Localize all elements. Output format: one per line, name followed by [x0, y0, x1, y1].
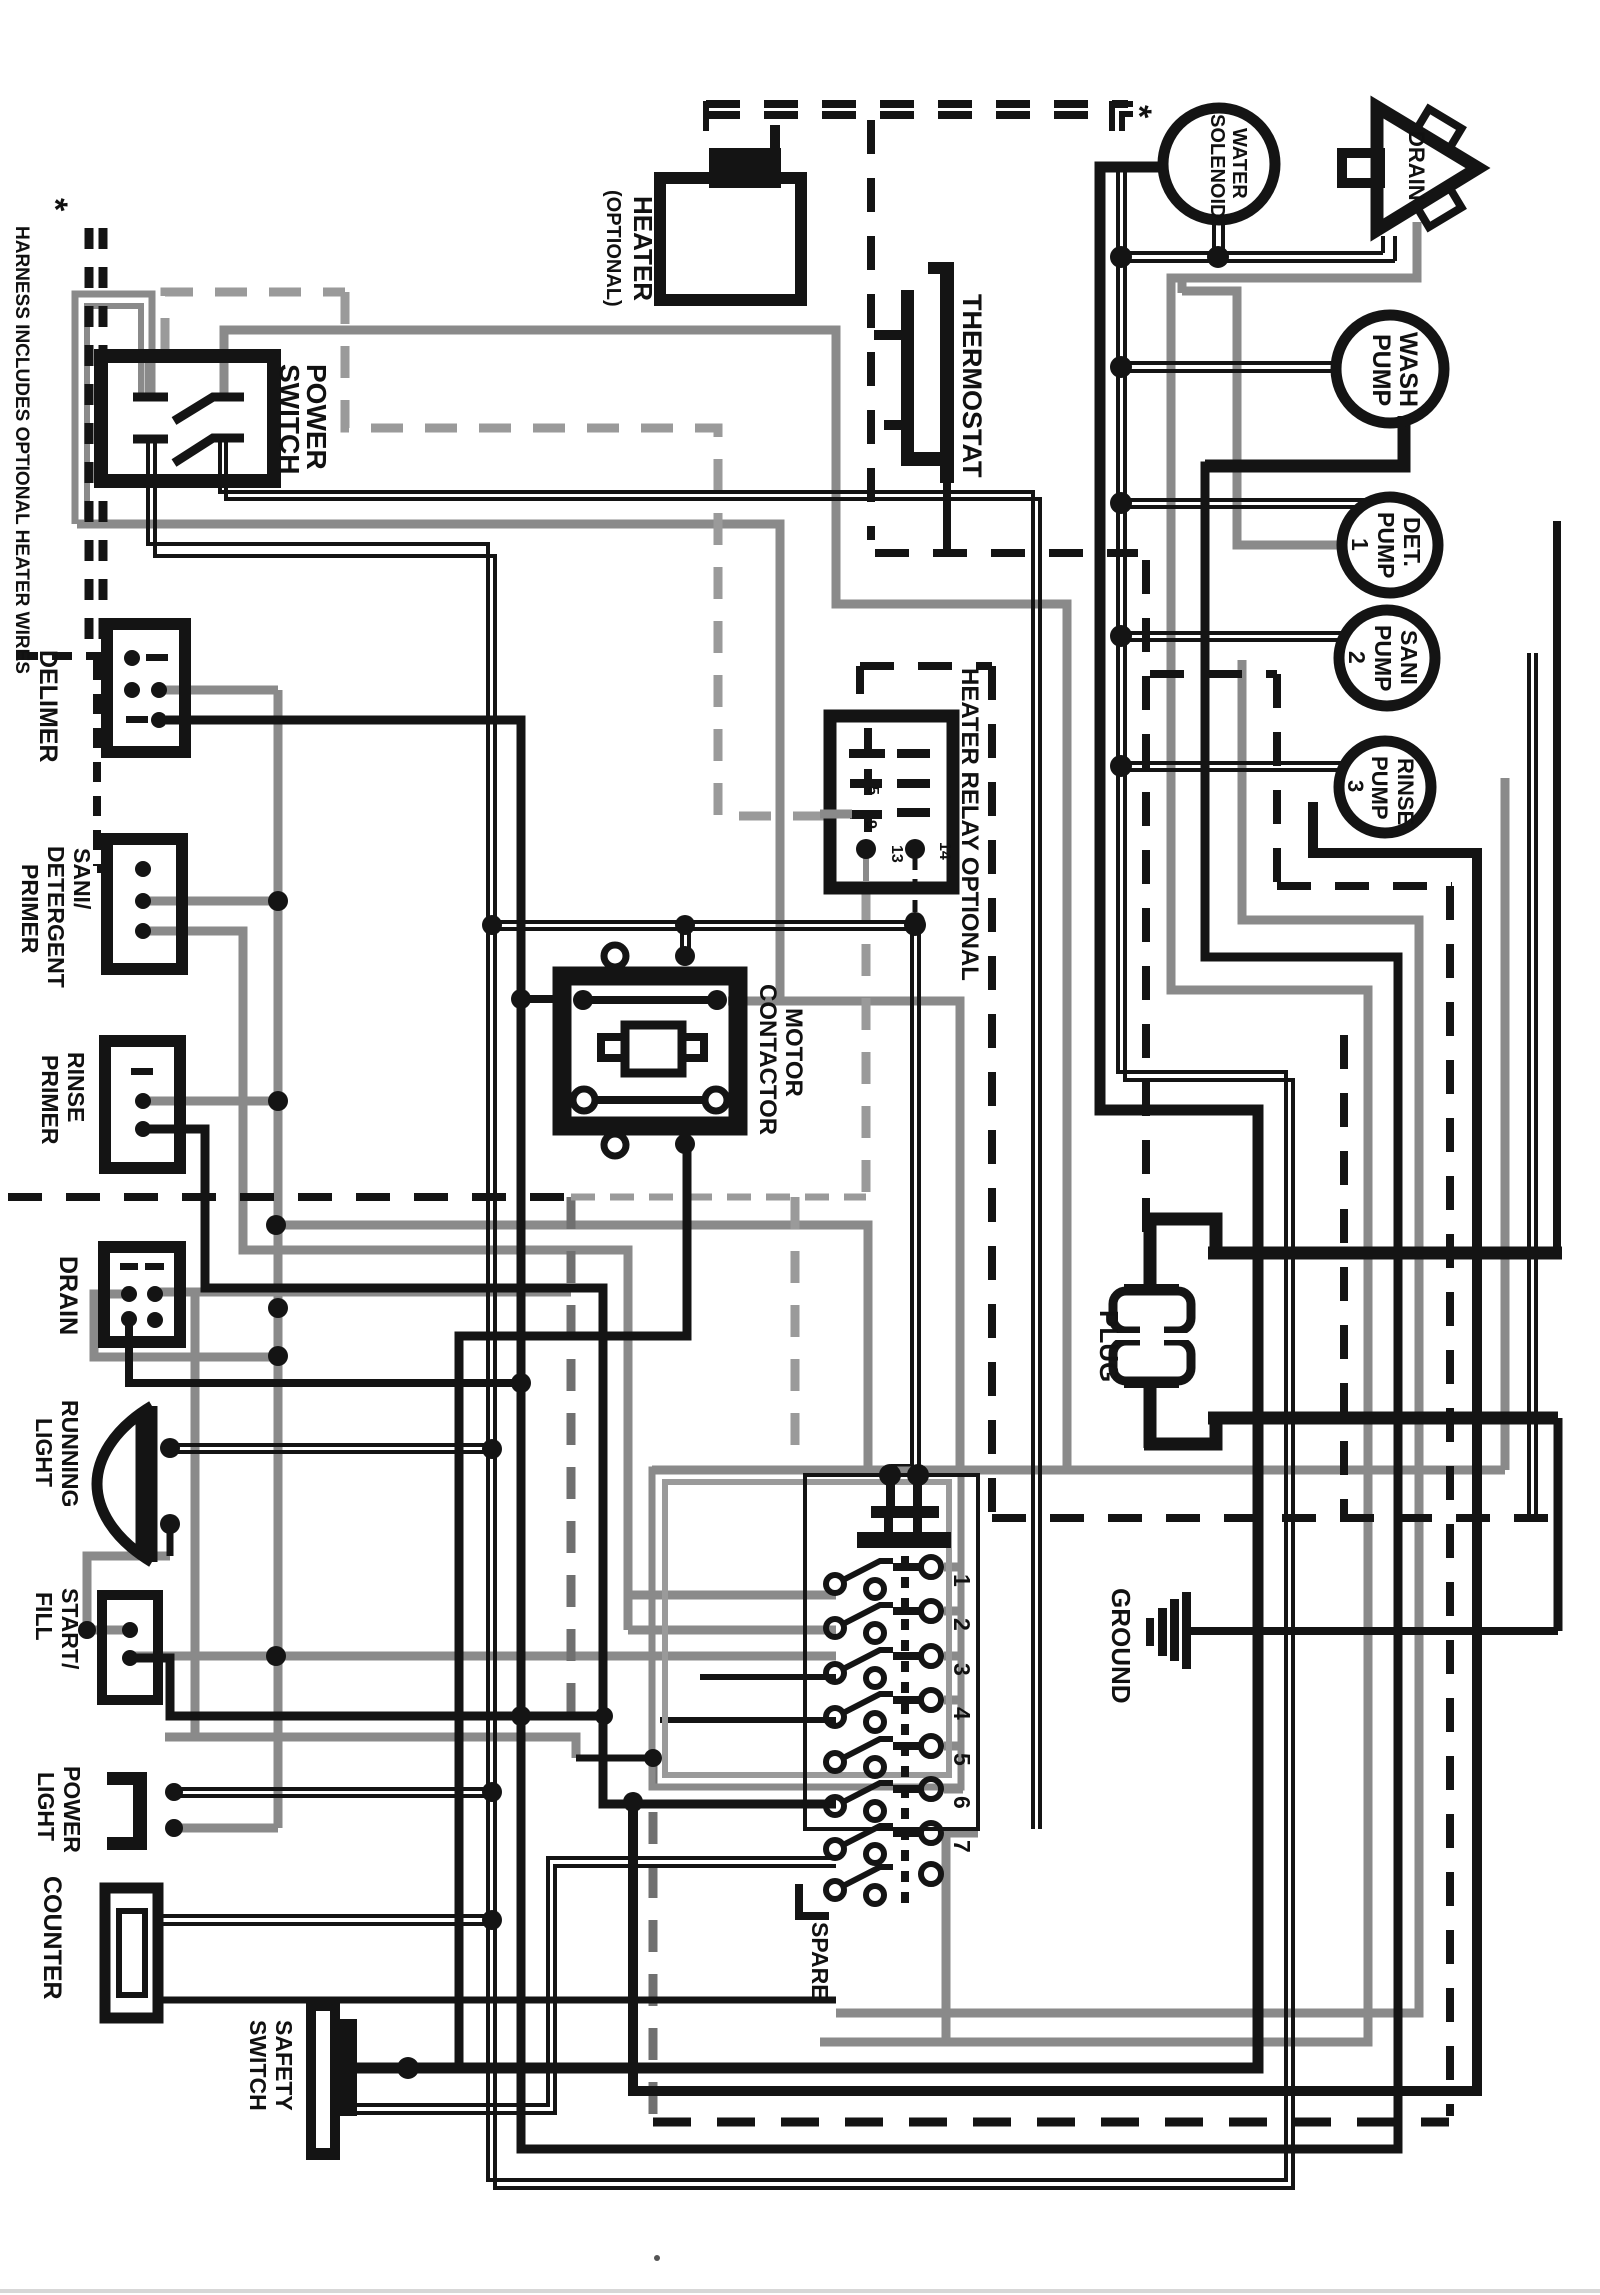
wire running light bottom pin link [167, 1532, 174, 1556]
svg-text:SOLENOID: SOLENOID [1206, 114, 1228, 218]
wire power-switch right pair to thermostat drop [220, 441, 1033, 1829]
svg-text:5: 5 [949, 1753, 975, 1766]
running light lamp [97, 1406, 152, 1562]
wire black dashed bottom run y2122 [653, 2118, 1449, 2127]
wire dark-gray-dashed center drop [571, 1197, 653, 2122]
wire dashed relay pin14 [913, 858, 918, 916]
wire bus thick y1253 [1208, 1247, 1562, 1260]
sani detergent primer box [107, 839, 182, 969]
power switch arm 1 [174, 397, 244, 421]
heater relay right bars [897, 749, 930, 758]
wire pair water solenoid bottom run to drain [1118, 251, 1383, 255]
node gray y1225 junction [266, 1215, 286, 1235]
motor contactor K2 box [562, 976, 738, 1126]
drain lower tab [1417, 187, 1462, 227]
heater relay contact T1 [849, 749, 885, 758]
motor contactor top ring [604, 945, 626, 967]
node bus wash junction [1110, 356, 1132, 378]
wire gray timer row2 feed [628, 1626, 836, 1635]
node relay pair bottom [905, 912, 925, 932]
wire gray-dashed heater relay drop [862, 890, 871, 1197]
wire gray power light bottom pin [174, 1824, 278, 1833]
wire bus thin pair with bottom loop [1118, 171, 1286, 1253]
wire dark-gray-dashed drop to bottom dashed run [649, 1758, 658, 2122]
node timer top right [907, 1464, 929, 1486]
wire black dashed y886 run [1277, 882, 1452, 890]
node relay pin13 [856, 839, 876, 859]
svg-text:5: 5 [864, 786, 881, 795]
svg-text:HEATER: HEATER [628, 196, 658, 301]
rinse primer box [105, 1041, 180, 1168]
svg-text:SANI/: SANI/ [69, 848, 95, 910]
wire gray long right vertical to gray box [1501, 778, 1510, 1470]
node MC top junction [675, 915, 695, 935]
wire gray drain box left pin U-loop [94, 1294, 278, 1357]
wire pair safety switch bottom to timer [355, 1858, 836, 2105]
node solenoid stem junction [1207, 246, 1229, 268]
svg-text:DETERGENT: DETERGENT [43, 846, 69, 988]
wire gray L1 feed to motor contactor [77, 524, 780, 1001]
node MC bottom pin [675, 1134, 695, 1154]
svg-text:3: 3 [949, 1663, 975, 1676]
wire gray water-solenoid to drain tab [820, 222, 1417, 2042]
wire gray start-fill bottom pin run [130, 1652, 836, 1661]
node start fill pins [122, 1622, 138, 1638]
svg-text:SWITCH: SWITCH [274, 364, 305, 474]
wire gray power-switch pin stub to net [224, 330, 1067, 1470]
svg-text:POWER: POWER [59, 1766, 85, 1853]
motor contactor coil tab right [682, 1037, 704, 1058]
wire heater dashed corner bracket left [706, 104, 726, 131]
wire black dashed x1146 drop [1142, 560, 1150, 1252]
wash pump M1 [1336, 315, 1444, 423]
plug bottom feed [1144, 1384, 1157, 1448]
node running light pins [160, 1438, 180, 1458]
wire gray inner run to det pump 1 [1182, 291, 1344, 545]
node y1716-x604 junction [595, 1707, 613, 1725]
svg-text:SPARE: SPARE [807, 1922, 833, 2000]
wire timer row3 stub [700, 1674, 836, 1680]
wire gray long run y1225 [276, 1225, 868, 1466]
svg-text:*: * [1120, 105, 1158, 119]
wire gray stub at solenoid corner [1178, 278, 1187, 293]
svg-text:1: 1 [1347, 538, 1373, 551]
drain left tab [1342, 153, 1380, 183]
wire stub delimer net to MC left pin [521, 995, 556, 1003]
node gray startfill junction [266, 1646, 286, 1666]
wire pair bus to rinse pump [1121, 761, 1343, 765]
ground symbol bars [1146, 1592, 1191, 1669]
wire counter bottom single run [158, 1997, 836, 2004]
wire gray-dashed power switch enclosure [165, 292, 866, 1197]
wire black dashed relay box right edge [860, 662, 992, 670]
wire right vertical det level [1553, 521, 1561, 1250]
svg-text:PRIMER: PRIMER [37, 1055, 63, 1145]
WIRES-GRAY [75, 222, 1505, 2122]
plug upper half [1113, 1284, 1191, 1336]
motor contactor bottom ring [604, 1134, 626, 1156]
node bus solenoid junction [1110, 246, 1132, 268]
plug lower half [1113, 1336, 1191, 1388]
motor contactor top contact bar [583, 996, 717, 1004]
node x653 dash junction [644, 1749, 662, 1767]
node bus rinse junction [1110, 755, 1132, 777]
heater relay contact 9 [850, 810, 882, 819]
svg-text:9: 9 [862, 820, 879, 829]
safety switch body [306, 2000, 357, 2160]
node running light junction [482, 1439, 502, 1459]
wire gray power-switch loop top-left [75, 294, 152, 524]
wire pair running light [176, 1443, 492, 1447]
power switch arm 2 [174, 438, 244, 463]
wire black dashed x1344 drop [1340, 1035, 1348, 1516]
gray box timer enclosure inner [665, 1482, 949, 1775]
wire power-switch left pair big loop [148, 442, 1286, 2180]
wire safety riser to motor contactor [459, 1142, 687, 2068]
spare bracket [799, 1884, 829, 1916]
svg-text:COUNTER: COUNTER [38, 1876, 66, 2000]
wire wash pump heavy hookup [1205, 416, 1404, 466]
svg-text:7: 7 [949, 1840, 975, 1853]
drain symbol triangle [1377, 107, 1478, 230]
timer cam rows [826, 1557, 941, 1904]
wire gray start-fill left gray drop [87, 1556, 170, 1630]
heater relay K1 box [830, 716, 953, 888]
wire black dashed y553 run [875, 549, 1138, 557]
node safety junction [397, 2057, 419, 2079]
svg-text:2: 2 [949, 1618, 975, 1631]
node relay pair top junction [904, 914, 926, 936]
svg-text:1: 1 [949, 1574, 975, 1587]
svg-text:SAFETY: SAFETY [271, 2020, 297, 2111]
wire black dashed y1197 run [8, 1193, 571, 1201]
wire gray rinse pump net right side [836, 660, 1419, 2013]
sani pump 2 M3 [1339, 610, 1435, 706]
motor contactor coil tab left [601, 1037, 625, 1058]
wire gray rinse primer mid pin [143, 1097, 278, 1106]
svg-text:MOTOR: MOTOR [780, 1008, 807, 1097]
wire pair relay drop to timer [893, 925, 912, 1477]
svg-text:4: 4 [949, 1707, 975, 1720]
svg-text:WATER: WATER [1228, 128, 1250, 199]
wire gray dashed y1197 continuation [571, 1194, 866, 1201]
wire rinse primer net to timer row6 [143, 1129, 836, 1804]
node MC right pin [707, 990, 727, 1010]
wire gray power-switch pin stub L1 [145, 356, 154, 400]
svg-text:GROUND: GROUND [1106, 1588, 1136, 1704]
svg-text:3: 3 [1343, 780, 1368, 792]
node relay pin14 [905, 839, 925, 859]
heater relay gray stub pin9 [820, 810, 852, 819]
svg-text:CONTACTOR: CONTACTOR [754, 984, 781, 1135]
svg-text:SANI: SANI [1396, 630, 1422, 685]
wire pair counter [158, 1914, 492, 1918]
svg-text:WASH: WASH [1394, 332, 1422, 407]
heater cap stub [770, 125, 780, 150]
wire black dashed harness to delimer [18, 652, 107, 660]
svg-text:PUMP: PUMP [1373, 512, 1399, 578]
wire thermostat bottom drop [943, 483, 951, 551]
svg-text:14: 14 [936, 842, 953, 860]
wire gray timer column riser [942, 1833, 951, 2042]
wire gray motor-contactor right pin run [728, 1001, 960, 1470]
wire gray drain box right pin run [155, 1288, 571, 1297]
power switch S1 box [101, 356, 274, 481]
svg-text:PUMP: PUMP [1367, 334, 1395, 406]
wire gray box top edge long [652, 1466, 1505, 1475]
rinse pump 3 M4 [1339, 741, 1431, 833]
gray box timer enclosure outer [652, 1470, 961, 1787]
scan speck [654, 2255, 660, 2261]
start fill box [102, 1595, 158, 1700]
wire pair bus to det pump [1121, 498, 1370, 502]
wire bus thick y1418 [1208, 1412, 1558, 1425]
svg-text:START/: START/ [57, 1588, 83, 1670]
wire black dashed thermostat left drop [867, 120, 875, 540]
wire pair power light [178, 1787, 492, 1791]
motor contactor bottom bar with rings [592, 1096, 710, 1104]
wire gray delimer mid pin vertical trunk [159, 686, 278, 695]
wire short joint y1758 [576, 1755, 653, 1762]
wire gray timer row1 feed [628, 1591, 836, 1600]
svg-text:LIGHT: LIGHT [33, 1772, 59, 1841]
node gray drain junction upper [268, 1298, 288, 1318]
timer header bracket [857, 1477, 951, 1548]
timer dot stems [886, 1477, 895, 1509]
svg-text:PUMP: PUMP [1367, 756, 1392, 820]
svg-text:PLUG: PLUG [1094, 1310, 1124, 1382]
wire right thin pair sani level [148, 171, 1536, 2188]
node power light pins [165, 1783, 183, 1801]
svg-text:*: * [36, 198, 74, 212]
wire branch to bottom long run rinse pump3 [633, 802, 1477, 2091]
node drain-delimer junction [511, 1373, 531, 1393]
node sani primer pins [135, 861, 151, 877]
delimer box [107, 624, 185, 752]
svg-text:2: 2 [1344, 651, 1370, 664]
wire black dashed y674 run [1150, 670, 1277, 678]
wire MC top pair [680, 924, 684, 954]
counter box [105, 1888, 158, 2018]
heater cap block [709, 148, 781, 188]
node delimer-MC junction [511, 989, 531, 1009]
svg-text:DET.: DET. [1399, 517, 1425, 567]
node MC top pin [675, 946, 695, 966]
thermostat TH1 [874, 262, 954, 483]
svg-text:RUNNING: RUNNING [57, 1400, 83, 1507]
svg-text:THERMOSTAT: THERMOSTAT [957, 294, 987, 478]
heater HTR1 box [660, 178, 801, 300]
wire heater dashed corner bracket right [706, 104, 1133, 131]
wire delimer big loop net [166, 418, 1404, 2149]
plug top feed [1144, 1219, 1216, 1253]
wire black dashed y1518 run [992, 1514, 1558, 1522]
svg-text:DRAIN: DRAIN [1404, 131, 1429, 201]
scan edge bottom [0, 2289, 1600, 2293]
water solenoid SOL1 [1163, 108, 1275, 220]
delimer pin dashes [126, 654, 168, 723]
wire gray sani primer bottom pin net [143, 931, 628, 1630]
thin black box around timer [805, 1475, 978, 1829]
wire black dashed x1450 long drop [1446, 886, 1454, 2116]
wire gray sani primer mid pin [143, 897, 278, 906]
thermostat stub lower [884, 420, 902, 430]
motor contactor bottom pin wire [683, 1145, 692, 1336]
node gray rinse junction [268, 1091, 288, 1111]
wire pair bus to sani pump [1121, 631, 1341, 635]
motor contactor coil center [625, 1025, 682, 1073]
svg-text:FILL: FILL [31, 1592, 57, 1641]
node x633 branch junction [623, 1792, 643, 1812]
plug gap [1105, 1333, 1200, 1340]
drain box pin dashes [120, 1263, 164, 1270]
svg-text:DRAIN: DRAIN [54, 1256, 82, 1335]
det pump 1 M2 [1342, 497, 1438, 593]
node drain box pins [121, 1286, 137, 1302]
heater relay pin13 gray tail [863, 852, 869, 882]
drain box [104, 1247, 180, 1342]
wire black dashed x1277 drop [1273, 674, 1281, 884]
node pair relay junction [482, 915, 502, 935]
node rinse primer pins [135, 1093, 151, 1109]
node bus sani junction [1110, 625, 1132, 647]
wire pair relay run y925 [492, 920, 915, 924]
svg-text:(OPTIONAL): (OPTIONAL) [602, 190, 624, 307]
wire main bus water-solenoid to safety-switch [354, 167, 1258, 2068]
wire right edge drop to ground run [1554, 1418, 1563, 1631]
svg-text:PRIMER: PRIMER [17, 864, 43, 954]
wire gray long run y1737 [165, 1737, 576, 1758]
water solenoid stem [1212, 219, 1216, 255]
svg-text:PUMP: PUMP [1370, 625, 1396, 691]
wire gray timer terminal stubs [944, 1563, 963, 1572]
node timer top left [879, 1464, 901, 1486]
svg-text:RINSE: RINSE [63, 1052, 89, 1122]
svg-text:SWITCH: SWITCH [245, 2020, 271, 2111]
wire pair bus to wash pump [1121, 361, 1338, 365]
node gray drain junction lower [268, 1346, 288, 1366]
power switch contact bars [133, 393, 168, 402]
node counter junction [482, 1910, 502, 1930]
svg-text:HEATER RELAY OPTIONAL: HEATER RELAY OPTIONAL [956, 668, 983, 981]
wire gray-dashed x795 drop [791, 1197, 800, 1468]
node MC left pin [573, 990, 593, 1010]
node gray startfill left dot [78, 1621, 96, 1639]
svg-text:RINSE: RINSE [1393, 758, 1418, 825]
node delimer pins [124, 650, 140, 666]
wire drain box to delimer trunk [129, 1319, 521, 1383]
wire start-fill bottom to crossing run [130, 1658, 604, 1716]
rinse primer pin dash [131, 1068, 153, 1075]
svg-text:DELIMER: DELIMER [34, 650, 62, 763]
heater relay contact 5 [850, 779, 882, 788]
counter inner rect [119, 1911, 145, 1995]
timer dashed index column [901, 1556, 909, 1908]
svg-text:LIGHT: LIGHT [31, 1418, 57, 1487]
wire black dashed harness note double [85, 228, 94, 648]
node startfill-delimer junction [511, 1706, 531, 1726]
svg-text:HARNESS INCLUDES OPTIONAL HEAT: HARNESS INCLUDES OPTIONAL HEATER WIRES [11, 226, 32, 674]
svg-text:6: 6 [949, 1796, 975, 1809]
node power light junction [482, 1782, 502, 1802]
thermostat stub upper [874, 330, 902, 340]
node gray sani junction [268, 891, 288, 911]
drain upper tab [1417, 109, 1462, 149]
wire gray drain box branch down [191, 1292, 200, 1737]
wire timer row4 stub [660, 1717, 836, 1723]
power light symbol [107, 1772, 147, 1850]
node bus det junction [1110, 492, 1132, 514]
wire ground horizontal [1189, 1627, 1558, 1635]
svg-text:13: 13 [888, 845, 905, 863]
